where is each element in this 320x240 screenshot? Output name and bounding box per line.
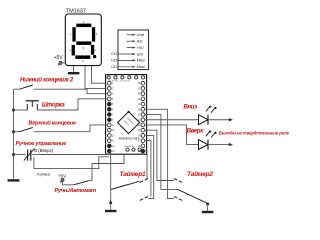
node timer1 common node	[109, 201, 112, 204]
svg-text:Вниз: Вниз	[183, 103, 198, 110]
svg-text:Верхний концевик: Верхний концевик	[28, 120, 77, 127]
svg-text:Miso: Miso	[137, 58, 146, 63]
wire timer1 lower contact stub	[145, 135, 154, 198]
svg-text:Нижний концевик 2: Нижний концевик 2	[20, 76, 74, 83]
ground left rail ground	[8, 178, 20, 181]
wire timer1 pole from board pin L14	[109, 151, 110, 203]
display TM1637 body	[65, 14, 101, 66]
wire LED down output arrow	[208, 118, 233, 121]
svg-text:D12: D12	[111, 59, 117, 63]
switch timer1 pole arm	[111, 181, 140, 189]
svg-text:Вверх: Вверх	[187, 127, 205, 134]
Arduino chip diamond	[118, 111, 140, 134]
wire SW2 to board pin L9	[42, 125, 108, 132]
svg-text:+5V: +5V	[137, 45, 144, 50]
Arduino right pin numbers	[138, 83, 141, 153]
wire LED2 anode from board pin R9	[145, 125, 199, 145]
wire display DIO to board pin L2	[85, 66, 108, 89]
svg-text:Таймер2: Таймер2	[187, 170, 213, 178]
svg-text:TM1637: TM1637	[66, 8, 86, 14]
pushbutton curtain	[14, 101, 39, 110]
node timer2 common node	[206, 203, 209, 206]
LED LED down	[199, 106, 217, 125]
wire timer1 lower contact from board pin	[145, 141, 151, 197]
svg-text:+5V: +5V	[58, 173, 67, 178]
power symbol display +5V flag	[58, 61, 62, 65]
Arduino right pin connected pads	[141, 149, 145, 153]
wire LED up output arrow	[208, 143, 233, 146]
svg-text:D13: D13	[111, 52, 117, 56]
svg-text:Arduino-mini: Arduino-mini	[119, 136, 140, 140]
power symbol bottom +5V flag	[60, 179, 64, 183]
svg-text:D11: D11	[111, 65, 117, 69]
ground timer1 ground	[105, 203, 117, 212]
wire left vertical rail	[13, 89, 15, 178]
switch lower limit SW1	[14, 85, 43, 89]
node rail junction upper switch	[12, 130, 15, 133]
Arduino left pin numbers	[112, 83, 115, 153]
wire display +5V pin	[62, 62, 65, 64]
ground timer2 ground	[202, 204, 214, 213]
Arduino top header holes	[107, 76, 145, 79]
wire LED1 anode from board pin R8	[145, 119, 199, 121]
svg-text:Ручное управление: Ручное управление	[16, 141, 67, 147]
module Arduino Nano board outline	[106, 75, 147, 155]
svg-text:Выходы на твердотельные реле: Выходы на твердотельные реле	[219, 130, 290, 135]
svg-text:Gnd: Gnd	[137, 32, 145, 37]
wire SW1 to board pin L3	[42, 89, 108, 93]
Arduino left pin connected pads	[107, 102, 111, 153]
Arduino left pin column	[107, 81, 111, 153]
node rail junction shutters	[12, 109, 15, 112]
wire manual/auto to board	[88, 154, 124, 181]
wire display CLK to board pin L1	[92, 66, 108, 84]
svg-text:Ручн./Автомат: Ручн./Автомат	[55, 188, 96, 194]
ICSP row Sck	[111, 51, 144, 56]
svg-text:A-(Вниз): A-(Вниз)	[37, 173, 50, 177]
ICSP row Mosi	[111, 64, 145, 69]
Arduino bottom header holes	[126, 148, 141, 151]
ICSP row Miso	[111, 58, 145, 63]
switch timer1 contacts	[140, 178, 148, 200]
switch upper limit SW2	[14, 128, 43, 132]
display TM1637 seven-segment digit 8	[72, 24, 97, 59]
svg-text:Mosi: Mosi	[137, 64, 145, 69]
switch manual/auto	[63, 181, 89, 185]
svg-text:Rst: Rst	[137, 39, 144, 44]
LED LED up	[199, 130, 217, 149]
display segment letter labels	[69, 21, 98, 63]
ICSP row +5V	[127, 45, 145, 50]
svg-text:Таймер1: Таймер1	[120, 170, 146, 178]
ICSP row Rst	[127, 39, 144, 44]
svg-text:+5V: +5V	[54, 55, 64, 61]
wire timer1 upper contact from board corner pin	[145, 151, 147, 178]
svg-text:Sck: Sck	[137, 51, 145, 56]
Arduino right pin column	[141, 81, 145, 153]
switch timer2 pole arm	[178, 190, 208, 204]
wire selector A row to board	[34, 157, 109, 169]
svg-text:Gnd A6 A7: Gnd A6 A7	[125, 145, 136, 148]
wire timer2 upper contact from board	[145, 130, 174, 180]
svg-text:B (Вверх): B (Вверх)	[34, 148, 53, 153]
wire pushbutton to board pin L4	[37, 99, 107, 110]
wire timer2 lower contact from board	[145, 109, 174, 198]
ICSP row Gnd	[127, 32, 145, 37]
svg-text:Шторка: Шторка	[42, 102, 66, 108]
switch timer2 contacts	[174, 178, 182, 200]
connector ICSP box	[118, 30, 149, 70]
node rail junction selector	[12, 153, 15, 156]
ground display ground	[68, 66, 80, 75]
wire timer2 pole from board	[145, 115, 178, 190]
selector switch manual up/down	[14, 148, 39, 160]
wire selector B row to board	[39, 153, 109, 155]
